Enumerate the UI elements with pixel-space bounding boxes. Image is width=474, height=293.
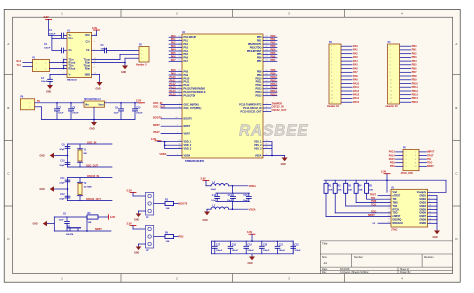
svg-text:PB13: PB13 bbox=[412, 94, 419, 97]
capacitor C19 100nF bbox=[244, 241, 255, 254]
wire+node PA9 bbox=[169, 73, 182, 76]
svg-text:TDI: TDI bbox=[427, 158, 431, 161]
resistor R6 10K bbox=[87, 213, 98, 224]
svg-text:3.3V: 3.3V bbox=[44, 16, 49, 19]
svg-text:PA5: PA5 bbox=[353, 64, 358, 67]
svg-text:10K: 10K bbox=[348, 190, 352, 192]
svg-text:TRST: TRST bbox=[427, 154, 434, 157]
wire+node PB6 bbox=[263, 55, 277, 58]
svg-text:VDDA: VDDA bbox=[184, 154, 191, 157]
svg-text:Drawn By:: Drawn By: bbox=[400, 271, 411, 274]
svg-text:PA6: PA6 bbox=[353, 67, 358, 70]
svg-text:VSSA: VSSA bbox=[249, 208, 256, 211]
svg-text:22pF: 22pF bbox=[59, 198, 65, 200]
ground (JTAG) bbox=[433, 231, 441, 239]
svg-text:C1+: C1+ bbox=[69, 37, 74, 40]
jumper J2 bbox=[127, 223, 184, 255]
svg-text:VSSA: VSSA bbox=[255, 154, 262, 157]
svg-text:PA14: PA14 bbox=[353, 97, 360, 100]
capacitor C6 10uF bbox=[59, 213, 70, 231]
svg-text:PB2: PB2 bbox=[179, 235, 184, 238]
svg-text:C13: C13 bbox=[212, 195, 217, 197]
svg-text:GND: GND bbox=[248, 263, 253, 265]
wire+node PB7 bbox=[263, 59, 277, 62]
svg-text:10K: 10K bbox=[166, 208, 170, 210]
svg-text:C19: C19 bbox=[247, 245, 252, 247]
wire+node PB5 bbox=[263, 52, 277, 55]
svg-text:NRST: NRST bbox=[153, 124, 160, 127]
svg-text:Header 16: Header 16 bbox=[327, 105, 340, 108]
svg-text:PA15: PA15 bbox=[169, 93, 176, 96]
wire NRST node bbox=[54, 217, 111, 232]
node NRST bbox=[153, 124, 182, 127]
ground (VSS) bbox=[281, 156, 288, 166]
svg-text:PB9: PB9 bbox=[412, 79, 417, 82]
wire left bbox=[53, 217, 55, 231]
svg-text:C2-: C2- bbox=[86, 49, 90, 52]
svg-text:3.3V: 3.3V bbox=[127, 190, 132, 193]
wire+node PA1 bbox=[169, 38, 182, 41]
capacitor C18 100nF bbox=[228, 241, 239, 254]
wire to VSSA bbox=[229, 208, 256, 211]
svg-text:PA7: PA7 bbox=[171, 59, 176, 62]
ground (U1 GND pin) bbox=[92, 75, 103, 91]
svg-text:C:\Users\..\Sheet1.SchDoc: C:\Users\..\Sheet1.SchDoc bbox=[340, 271, 369, 274]
capacitor C17 100nF bbox=[212, 241, 223, 254]
resistor R4 10K bbox=[154, 231, 178, 242]
wire+node PA11 bbox=[169, 80, 182, 83]
node 0V bbox=[373, 223, 392, 225]
wire+node PB8 bbox=[263, 69, 277, 72]
wire+node PA12 bbox=[169, 83, 182, 86]
svg-text:MAX3232: MAX3232 bbox=[67, 79, 78, 82]
capacitor C1 bbox=[49, 30, 67, 38]
wire bottom node bbox=[68, 165, 113, 168]
svg-text:10uF: 10uF bbox=[114, 113, 120, 115]
svg-text:10uF: 10uF bbox=[58, 113, 64, 115]
power 3.3V (JTAG) bbox=[381, 171, 390, 193]
wire+node PA0 bbox=[169, 35, 182, 38]
wire+node PA5 bbox=[169, 52, 182, 55]
svg-text:C15: C15 bbox=[243, 195, 248, 197]
wire+node PB0 bbox=[263, 35, 277, 38]
svg-text:22pF: 22pF bbox=[59, 182, 65, 184]
capacitor C12 bbox=[59, 194, 70, 200]
svg-text:PA7: PA7 bbox=[353, 71, 358, 74]
node BOOT0 bbox=[153, 116, 182, 119]
svg-text:DBGACK: DBGACK bbox=[393, 222, 404, 225]
svg-text:GND: GND bbox=[46, 92, 51, 94]
svg-text:OSC_OUT: OSC_OUT bbox=[153, 106, 166, 109]
svg-text:OSC32_OUT: OSC32_OUT bbox=[272, 109, 287, 112]
svg-text:GND: GND bbox=[85, 73, 91, 76]
svg-text:10uF: 10uF bbox=[211, 200, 217, 202]
svg-text:PB7: PB7 bbox=[271, 59, 276, 62]
svg-text:100nF: 100nF bbox=[232, 250, 239, 252]
svg-text:PA9: PA9 bbox=[353, 79, 358, 82]
ground (VDDA filter) bbox=[203, 209, 211, 222]
capacitor C8 100uF bbox=[68, 102, 79, 119]
svg-text:100nF: 100nF bbox=[44, 48, 51, 50]
wire+node PB2 bbox=[263, 42, 277, 45]
power 3.3V (regulator out) bbox=[136, 99, 145, 102]
svg-text:PB5: PB5 bbox=[412, 64, 417, 67]
wire vout rail bbox=[105, 102, 142, 104]
node OSC_IN bbox=[153, 102, 182, 105]
svg-text:30pF: 30pF bbox=[59, 165, 65, 167]
svg-text:TCK: TCK bbox=[371, 204, 376, 207]
svg-text:R2in: R2in bbox=[85, 67, 91, 70]
svg-text:GND: GND bbox=[96, 89, 101, 91]
header P1 bbox=[17, 57, 50, 71]
svg-text:BOOT0: BOOT0 bbox=[179, 202, 188, 205]
resistor R3 10K bbox=[344, 180, 391, 206]
jumper J1 bbox=[127, 190, 188, 222]
connector P4 Header 16 bbox=[386, 41, 419, 108]
svg-text:VDDA: VDDA bbox=[249, 185, 256, 188]
svg-text:10uF: 10uF bbox=[227, 200, 233, 202]
power 3.3V (J2) bbox=[127, 223, 146, 230]
wire+node PB13 bbox=[263, 86, 277, 89]
svg-text:3.3V: 3.3V bbox=[381, 171, 386, 174]
svg-text:NRST: NRST bbox=[427, 165, 434, 168]
wire U3 gnd bbox=[93, 107, 95, 120]
header J1 3pin bbox=[146, 192, 154, 218]
svg-text:5V: 5V bbox=[37, 100, 40, 103]
header J2 3pin bbox=[146, 225, 154, 251]
svg-text:B: B bbox=[7, 106, 9, 110]
svg-text:GND: GND bbox=[134, 219, 139, 221]
svg-text:A4: A4 bbox=[324, 261, 328, 265]
node VBAT bbox=[153, 131, 182, 134]
ground (J2) bbox=[134, 244, 146, 254]
svg-text:C17: C17 bbox=[216, 245, 221, 247]
wire T1out to P2 bbox=[92, 54, 139, 59]
wire+node PA4 bbox=[169, 49, 182, 52]
power 3.3V (J1) bbox=[127, 190, 146, 197]
svg-text:C12: C12 bbox=[60, 194, 65, 196]
reset circuit bbox=[33, 213, 116, 236]
wire P1 to U1 bbox=[50, 60, 68, 69]
svg-text:PA2: PA2 bbox=[353, 53, 358, 56]
wire+node PA13 bbox=[169, 86, 182, 89]
svg-text:100nF: 100nF bbox=[263, 250, 270, 252]
svg-text:Number: Number bbox=[354, 256, 363, 259]
inductor L1 bbox=[211, 182, 229, 191]
node TAMPER bbox=[263, 102, 282, 105]
capacitor C4 bbox=[41, 75, 67, 86]
capacitor C22 100nF bbox=[291, 241, 302, 254]
svg-text:PA12: PA12 bbox=[353, 90, 360, 93]
svg-text:C10: C10 bbox=[60, 161, 65, 163]
svg-text:VDDA: VDDA bbox=[159, 153, 166, 156]
wire+node PB15 bbox=[263, 93, 277, 96]
node VDDA bbox=[159, 153, 182, 156]
svg-text:B: B bbox=[455, 106, 457, 110]
svg-text:10uH: 10uH bbox=[211, 189, 217, 191]
svg-text:GND: GND bbox=[40, 156, 45, 158]
svg-text:NRST: NRST bbox=[184, 125, 191, 128]
wire+node PA3 bbox=[169, 45, 182, 48]
svg-text:GND: GND bbox=[33, 224, 38, 226]
resistor R5 10K bbox=[365, 180, 391, 199]
ground (J1) bbox=[134, 211, 146, 221]
svg-text:10K: 10K bbox=[166, 241, 170, 243]
svg-text:PB3: PB3 bbox=[412, 56, 417, 59]
svg-text:GND: GND bbox=[90, 128, 95, 130]
svg-text:Tx1: Tx1 bbox=[17, 64, 22, 67]
wire+node PB4 bbox=[263, 49, 277, 52]
svg-text:PC15-OSC32_OUT: PC15-OSC32_OUT bbox=[241, 110, 263, 113]
wire+node PB1 bbox=[263, 38, 277, 41]
svg-text:PA11: PA11 bbox=[353, 86, 360, 89]
svg-text:PB8: PB8 bbox=[412, 75, 417, 78]
wire R1in to P2 bbox=[92, 58, 139, 62]
svg-text:INPUT: INPUT bbox=[427, 151, 435, 154]
mcu U2 bbox=[182, 32, 263, 163]
svg-text:PA4: PA4 bbox=[353, 60, 358, 63]
svg-text:PA3: PA3 bbox=[353, 56, 358, 59]
svg-text:Revision: Revision bbox=[424, 256, 434, 259]
svg-text:Header 3: Header 3 bbox=[136, 63, 147, 66]
junction dots bbox=[63, 62, 65, 70]
svg-text:10K: 10K bbox=[338, 190, 342, 192]
svg-text:PA15: PA15 bbox=[389, 158, 396, 161]
svg-text:PB15: PB15 bbox=[256, 95, 263, 98]
svg-text:PA10: PA10 bbox=[353, 82, 360, 85]
svg-text:OSC32_OUT: OSC32_OUT bbox=[86, 198, 101, 201]
svg-text:C18: C18 bbox=[232, 245, 237, 247]
svg-text:TDO: TDO bbox=[427, 162, 432, 165]
svg-text:10K: 10K bbox=[359, 190, 363, 192]
svg-text:100nF: 100nF bbox=[49, 33, 56, 35]
capacitor C7 10uF bbox=[54, 102, 64, 119]
crystal circuit Y1 bbox=[40, 142, 113, 168]
svg-text:PB6: PB6 bbox=[412, 67, 417, 70]
power 3.3V (reset) bbox=[98, 215, 115, 220]
resistor R2 10K bbox=[333, 180, 391, 213]
ground (Y2) bbox=[40, 186, 68, 191]
wire Vsupply bbox=[428, 180, 446, 192]
node OSC32_IN bbox=[263, 106, 284, 109]
svg-text:NRST: NRST bbox=[95, 228, 102, 231]
svg-text:JTAG_PIN: JTAG_PIN bbox=[401, 172, 413, 175]
svg-text:10K: 10K bbox=[88, 222, 92, 224]
svg-text:PB11: PB11 bbox=[412, 86, 419, 89]
svg-text:GND: GND bbox=[433, 237, 438, 239]
svg-text:3.3V: 3.3V bbox=[136, 99, 141, 102]
wire C1+ row bbox=[52, 35, 67, 38]
node TRST bbox=[370, 193, 392, 196]
svg-text:OSC_OUT(PD1): OSC_OUT(PD1) bbox=[184, 107, 202, 110]
svg-text:3.3V: 3.3V bbox=[92, 27, 97, 30]
wire+node PA2 bbox=[169, 42, 182, 45]
wire+node PA7 bbox=[169, 59, 182, 62]
svg-text:Vout: Vout bbox=[98, 103, 103, 106]
wire VSS_1..3 to GND bbox=[263, 142, 285, 156]
svg-text:3.3V: 3.3V bbox=[110, 216, 115, 219]
svg-text:C1-: C1- bbox=[69, 49, 73, 52]
svg-text:SW-PB: SW-PB bbox=[66, 234, 74, 236]
capacitor C21 100nF bbox=[275, 241, 286, 254]
svg-text:100nF: 100nF bbox=[41, 81, 48, 83]
wire cap box bbox=[216, 186, 250, 209]
op-amp U1 MAX3232 bbox=[62, 30, 96, 81]
svg-text:GND: GND bbox=[121, 72, 126, 74]
capacitor C9 bbox=[59, 144, 70, 150]
wire top node bbox=[68, 142, 113, 145]
svg-text:100nF: 100nF bbox=[294, 250, 301, 252]
connector P3 Header 16 bbox=[327, 42, 360, 108]
svg-text:GND: GND bbox=[40, 189, 45, 191]
svg-text:BOOT0: BOOT0 bbox=[153, 116, 162, 119]
capacitor C9b 10uF bbox=[114, 102, 124, 119]
svg-text:8M: 8M bbox=[84, 153, 87, 155]
header P2 bbox=[136, 44, 149, 66]
svg-text:10uF: 10uF bbox=[243, 200, 249, 202]
svg-text:R2out: R2out bbox=[69, 67, 76, 70]
svg-text:100nF: 100nF bbox=[279, 250, 286, 252]
wire gnd rail bbox=[42, 118, 136, 120]
crystal Y1 bbox=[78, 144, 88, 167]
switch S1 SW-PB bbox=[66, 226, 81, 236]
wire+node PB11 bbox=[263, 80, 277, 83]
svg-text:STM32F103C8T6: STM32F103C8T6 bbox=[185, 160, 205, 163]
regulator U3 SPX1117M3-3.3 bbox=[81, 99, 108, 107]
svg-text:C20: C20 bbox=[263, 245, 268, 247]
ground below C4 bbox=[46, 85, 53, 94]
svg-text:Size: Size bbox=[322, 256, 327, 259]
wire+node PA15 bbox=[169, 93, 182, 96]
crystal Y2 bbox=[78, 178, 93, 201]
ground (decoupling) bbox=[248, 254, 256, 265]
svg-text:3.3V: 3.3V bbox=[151, 138, 156, 141]
svg-text:PB15: PB15 bbox=[412, 101, 419, 104]
svg-text:100nF: 100nF bbox=[247, 250, 254, 252]
ground (regulator) bbox=[90, 119, 98, 130]
svg-text:PB3: PB3 bbox=[390, 162, 395, 165]
svg-text:100uF: 100uF bbox=[72, 113, 79, 115]
svg-text:10K: 10K bbox=[328, 190, 332, 192]
svg-text:JTAG: JTAG bbox=[391, 229, 398, 232]
svg-text:32.768K: 32.768K bbox=[84, 187, 93, 189]
svg-text:PA7: PA7 bbox=[184, 60, 189, 63]
connector P5 JTAG_PIN bbox=[389, 147, 435, 174]
svg-text:PA15: PA15 bbox=[353, 101, 360, 104]
svg-text:PA1: PA1 bbox=[353, 49, 358, 52]
svg-text:VSS_3: VSS_3 bbox=[254, 147, 262, 150]
svg-text:VBAT: VBAT bbox=[153, 131, 160, 134]
capacitor C10 bbox=[59, 161, 70, 167]
ground (reset) bbox=[33, 221, 55, 226]
svg-text:A: A bbox=[455, 42, 457, 46]
svg-text:PB2: PB2 bbox=[412, 53, 417, 56]
capacitor C2 bbox=[44, 38, 67, 52]
svg-text:OSC_IN: OSC_IN bbox=[87, 142, 97, 145]
wire+node PB10 bbox=[263, 76, 277, 79]
capacitor C20 100nF bbox=[259, 241, 270, 254]
resistor R4 10K bbox=[354, 180, 391, 202]
svg-text:3.3V: 3.3V bbox=[127, 223, 132, 226]
capacitor C13 bbox=[211, 193, 219, 202]
wire+node PA14 bbox=[169, 90, 182, 93]
wire+node PB9 bbox=[263, 73, 277, 76]
power 3.3V (decoupling) bbox=[247, 231, 255, 241]
node OSC_OUT bbox=[153, 106, 182, 109]
crystal circuit Y2 bbox=[40, 175, 113, 201]
svg-text:PA13: PA13 bbox=[353, 94, 360, 97]
wire trunk bbox=[67, 178, 69, 201]
wire+node PB14 bbox=[263, 90, 277, 93]
ground (Y1) bbox=[40, 153, 68, 158]
svg-text:RASBEE: RASBEE bbox=[239, 123, 308, 140]
svg-text:BOOT0: BOOT0 bbox=[184, 118, 193, 121]
svg-text:C22: C22 bbox=[294, 245, 299, 247]
svg-text:PA15/JTDI: PA15/JTDI bbox=[184, 95, 196, 98]
wire bottom node bbox=[68, 198, 113, 201]
svg-text:File:: File: bbox=[322, 271, 327, 274]
svg-text:VDD_3: VDD_3 bbox=[184, 147, 192, 150]
power 3.3V (U1 VCC) bbox=[92, 27, 100, 36]
svg-text:Rx1: Rx1 bbox=[17, 60, 22, 63]
svg-text:C14: C14 bbox=[228, 194, 233, 197]
svg-text:PA0: PA0 bbox=[353, 45, 358, 48]
svg-text:PB12: PB12 bbox=[412, 90, 419, 93]
wire trunk bbox=[67, 144, 69, 167]
svg-text:Title: Title bbox=[322, 241, 328, 245]
svg-text:PB14: PB14 bbox=[412, 97, 419, 100]
wire GND collect bbox=[428, 196, 437, 231]
svg-text:10K: 10K bbox=[369, 190, 373, 192]
svg-text:10uF: 10uF bbox=[59, 220, 65, 222]
svg-text:GND: GND bbox=[281, 164, 286, 166]
svg-text:PB0: PB0 bbox=[412, 45, 417, 48]
resistor R3 10K bbox=[154, 199, 178, 209]
svg-text:PB4: PB4 bbox=[390, 165, 395, 168]
wire+node PA10 bbox=[169, 76, 182, 79]
wire+node PA6 bbox=[169, 55, 182, 58]
connector U5 JTAG bbox=[388, 187, 432, 231]
svg-text:C2+: C2+ bbox=[86, 41, 91, 44]
svg-text:30pF: 30pF bbox=[59, 149, 65, 151]
node OSC32_OUT bbox=[263, 109, 287, 112]
svg-text:NRST: NRST bbox=[368, 214, 375, 217]
wire rails bbox=[211, 241, 293, 254]
wire VDD_1..3 bbox=[158, 142, 182, 149]
svg-text:GND: GND bbox=[203, 220, 208, 222]
capacitor C3 bbox=[92, 45, 139, 53]
inductor L2 bbox=[207, 206, 229, 210]
svg-text:PB15: PB15 bbox=[271, 93, 278, 96]
svg-text:PA8: PA8 bbox=[353, 75, 358, 78]
svg-text:PB10: PB10 bbox=[412, 82, 419, 85]
svg-text:PA13: PA13 bbox=[389, 151, 396, 154]
wire+node PB12 bbox=[263, 83, 277, 86]
capacitor C15 bbox=[243, 193, 251, 202]
svg-text:GND9: GND9 bbox=[419, 222, 426, 225]
svg-text:100uF: 100uF bbox=[136, 113, 143, 115]
svg-text:VBAT: VBAT bbox=[184, 132, 191, 135]
wire top node bbox=[68, 175, 113, 178]
svg-text:3.3V: 3.3V bbox=[247, 231, 252, 234]
svg-text:VCC: VCC bbox=[85, 34, 90, 37]
capacitor C14 bbox=[227, 193, 235, 202]
svg-text:Vin: Vin bbox=[85, 103, 89, 106]
svg-text:PB7: PB7 bbox=[257, 60, 262, 63]
wire top rail bbox=[54, 216, 87, 218]
svg-text:100nF: 100nF bbox=[216, 250, 223, 252]
svg-text:PA14: PA14 bbox=[389, 154, 396, 157]
